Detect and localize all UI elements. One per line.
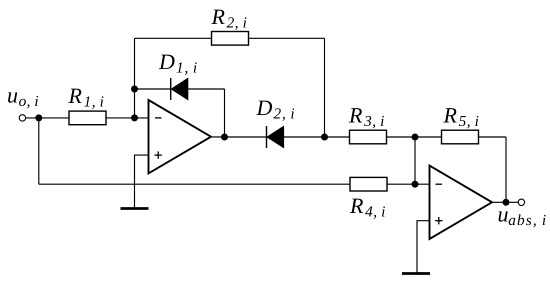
wire feedback drop to U2 output node	[505, 137, 507, 202]
node mid (feedback junction)	[321, 134, 328, 141]
wire feedback drop to mid node	[324, 38, 326, 137]
wire R1 to op-amp U1 inverting input	[106, 117, 149, 119]
wire input terminal to R1	[26, 117, 70, 119]
svg-text:u: u	[7, 83, 18, 108]
node input junction	[35, 114, 42, 121]
diode D1	[171, 78, 188, 100]
svg-text:1, i: 1, i	[176, 59, 198, 76]
wire node B down to U2 inverting node	[414, 137, 416, 184]
terminal input u_o,i	[19, 115, 25, 121]
wire top rail to R2	[135, 37, 212, 39]
svg-text:2, i: 2, i	[227, 14, 248, 31]
wire U1 output node to D2	[225, 136, 267, 138]
svg-text:3, i: 3, i	[363, 113, 385, 130]
resistor R3	[350, 130, 387, 144]
svg-text:1, i: 1, i	[84, 93, 105, 110]
wire drop to U1 output node	[224, 89, 226, 137]
svg-text:abs, i: abs, i	[508, 212, 547, 229]
node U2 inverting input junction	[412, 181, 419, 188]
svg-text:4, i: 4, i	[365, 203, 386, 220]
wire R2 to feedback drop	[249, 37, 325, 39]
wire mid node to R3	[325, 136, 350, 138]
wire U1 output	[211, 136, 225, 138]
wire U1 non-inverting input to ground	[135, 155, 149, 208]
resistor R2	[212, 32, 249, 46]
svg-text:R: R	[68, 83, 83, 108]
resistor R4	[350, 177, 387, 191]
terminal output u_abs,i	[518, 199, 524, 205]
ground GND2	[402, 272, 430, 275]
wire bottom rail to R4	[39, 183, 350, 185]
wire D1 cathode from node	[135, 88, 171, 90]
wire R5 to feedback corner	[479, 136, 507, 138]
svg-text:R: R	[211, 4, 226, 29]
svg-text:D: D	[158, 49, 175, 74]
node U2 output	[503, 199, 510, 206]
wire R3 to node B	[387, 136, 416, 138]
wire D2 anode to mid node	[284, 136, 325, 138]
svg-text:R: R	[349, 193, 364, 218]
svg-text:5, i: 5, i	[459, 113, 480, 130]
node D1 anode branch	[131, 86, 138, 93]
wire node B to R5	[415, 136, 442, 138]
op-amp U1	[149, 100, 212, 173]
diode D2	[267, 126, 284, 148]
wire U2 non-inverting input to ground	[417, 221, 430, 274]
resistor R5	[442, 130, 479, 144]
node U1 output	[221, 134, 228, 141]
svg-text:u: u	[498, 202, 509, 227]
wire R4 to U2 inverting input	[387, 183, 430, 185]
wire node A up to top rail	[134, 38, 136, 118]
node B R3-R5 junction	[412, 134, 419, 141]
op-amp U2	[430, 166, 493, 239]
svg-text:R: R	[348, 103, 363, 128]
wire D1 anode to drop	[188, 88, 225, 90]
wire U2 output to node	[492, 201, 506, 203]
svg-text:R: R	[443, 103, 458, 128]
wire output node to terminal	[506, 201, 518, 203]
svg-text:D: D	[256, 95, 273, 120]
resistor R1	[69, 111, 106, 125]
wire input junction down bottom rail	[38, 118, 40, 184]
node A inverting input junction	[131, 114, 138, 121]
ground GND1	[121, 207, 149, 210]
svg-text:o, i: o, i	[19, 93, 39, 110]
svg-text:2, i: 2, i	[274, 105, 296, 122]
